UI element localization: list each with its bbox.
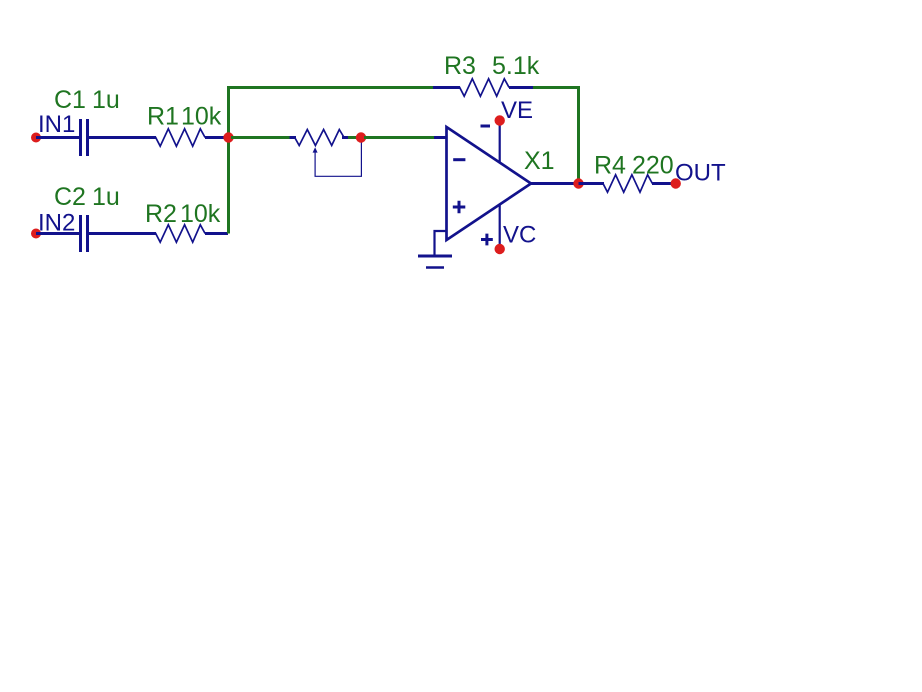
wire R2 to node A vertical xyxy=(205,232,228,235)
wire op-amp output xyxy=(531,182,580,185)
ground xyxy=(418,256,452,268)
resistor R2 xyxy=(151,225,206,242)
svg-text:10k: 10k xyxy=(180,200,221,228)
pin VC power (positive supply) of X1 xyxy=(499,204,501,249)
potentiometer P1 (rheostat) xyxy=(290,130,362,177)
wire IN2 to C2 xyxy=(36,232,79,235)
node IN2 input terminal xyxy=(31,229,41,239)
svg-text:5.1k: 5.1k xyxy=(492,52,540,80)
resistor R3 xyxy=(455,79,510,96)
node C output junction xyxy=(573,178,583,188)
wire feedback vertical (green) xyxy=(577,88,580,182)
capacitor C1 xyxy=(81,119,88,156)
svg-text:OUT: OUT xyxy=(675,160,726,187)
svg-text:C1: C1 xyxy=(54,86,86,114)
node OUT terminal xyxy=(671,178,681,188)
node B junction (wiper tie) xyxy=(356,132,366,142)
svg-text:10k: 10k xyxy=(181,103,222,131)
wire op-amp inverting input lead xyxy=(434,136,447,139)
wire C1 to R1 xyxy=(89,136,156,139)
wiper arrow of P1 xyxy=(313,147,318,152)
svg-text:VE: VE xyxy=(501,97,533,124)
minus sign inverting input of X1 xyxy=(453,158,465,161)
wire op-amp plus input to ground xyxy=(435,231,447,255)
wire R4 to OUT xyxy=(652,182,676,185)
plus sign VC polarity xyxy=(481,234,493,246)
svg-text:R3: R3 xyxy=(444,52,476,80)
node VE terminal xyxy=(495,115,505,125)
wire C2 to R2 xyxy=(89,232,156,235)
svg-text:1u: 1u xyxy=(92,183,120,211)
plus sign noninverting input of X1 xyxy=(453,201,466,214)
node IN1 input terminal xyxy=(31,133,41,143)
wire node B to op-amp (green) xyxy=(364,136,434,139)
svg-text:1u: 1u xyxy=(92,86,120,114)
svg-text:220: 220 xyxy=(632,152,674,180)
svg-text:R1: R1 xyxy=(147,103,179,131)
op-amp X1 xyxy=(447,121,532,250)
wire P1 to node B (green) xyxy=(348,136,364,139)
wire R3 left lead xyxy=(433,86,460,89)
wire feedback top right (green) xyxy=(533,86,580,89)
svg-text:R2: R2 xyxy=(145,200,177,228)
wire feedback top left (green) xyxy=(227,86,433,89)
wire R3 right lead xyxy=(509,86,534,89)
node VC terminal xyxy=(495,244,505,254)
svg-text:C2: C2 xyxy=(54,183,86,211)
svg-text:VC: VC xyxy=(503,222,536,249)
svg-text:R4: R4 xyxy=(594,152,626,180)
wire node C to R4 xyxy=(579,182,605,185)
svg-text:IN1: IN1 xyxy=(38,111,75,138)
wire node A vertical (green) xyxy=(227,86,230,234)
node A junction xyxy=(223,132,233,142)
wire node A to P1 (green) xyxy=(231,136,291,139)
wiper wire of P1 xyxy=(315,140,361,176)
pin VE power (negative supply) of X1 xyxy=(499,121,501,164)
resistor R1 xyxy=(151,129,206,146)
resistor R4 xyxy=(598,175,653,192)
wire IN1 to C1 xyxy=(36,136,79,139)
svg-text:X1: X1 xyxy=(524,147,555,175)
capacitor C2 xyxy=(81,215,88,252)
wire R1 to node A xyxy=(205,136,228,139)
minus sign VE polarity xyxy=(481,125,491,128)
